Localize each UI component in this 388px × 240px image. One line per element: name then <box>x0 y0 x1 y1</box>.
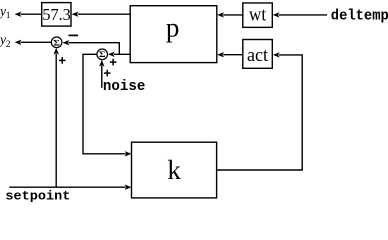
wire p to 57.3 <box>72 12 131 17</box>
block k <box>132 142 217 198</box>
svg-text:wt: wt <box>249 6 267 26</box>
wire deltemp into wt <box>273 12 327 17</box>
svg-text:2: 2 <box>6 40 11 50</box>
summing junction S1 <box>51 37 62 48</box>
svg-text:Σ: Σ <box>99 51 106 60</box>
plus label S2 right input <box>110 59 117 66</box>
wire y2 output <box>15 40 51 45</box>
wire S2 output to k upper input <box>83 54 132 156</box>
wire minus feedback into S1 <box>63 40 120 54</box>
wire p to S2 <box>108 52 130 57</box>
wire y1 output <box>15 12 42 17</box>
wire setpoint branch to S1 <box>54 48 59 187</box>
svg-text:deltemp: deltemp <box>331 8 388 24</box>
label minus <box>69 34 79 36</box>
svg-text:p: p <box>166 13 180 43</box>
wire k output to act <box>217 52 303 170</box>
wire wt to p <box>217 12 243 17</box>
wire noise into S2 <box>99 60 104 88</box>
svg-text:k: k <box>167 155 181 185</box>
wire act to p <box>217 52 243 57</box>
plus label noise input <box>104 70 111 77</box>
svg-text:57.3: 57.3 <box>42 5 70 24</box>
label y1 <box>0 4 11 22</box>
block p <box>130 6 217 63</box>
label y2 <box>0 32 11 50</box>
block wt <box>243 3 272 27</box>
summing junction S2 <box>97 49 108 60</box>
block act <box>243 40 272 69</box>
wire setpoint into k lower input <box>9 185 131 190</box>
svg-text:setpoint: setpoint <box>5 188 70 203</box>
svg-text:act: act <box>247 46 269 66</box>
svg-text:Σ: Σ <box>53 39 60 48</box>
block 57.3 <box>42 3 71 27</box>
svg-text:1: 1 <box>6 11 11 21</box>
svg-text:noise: noise <box>103 79 145 95</box>
plus label S1 bottom input <box>59 57 66 64</box>
